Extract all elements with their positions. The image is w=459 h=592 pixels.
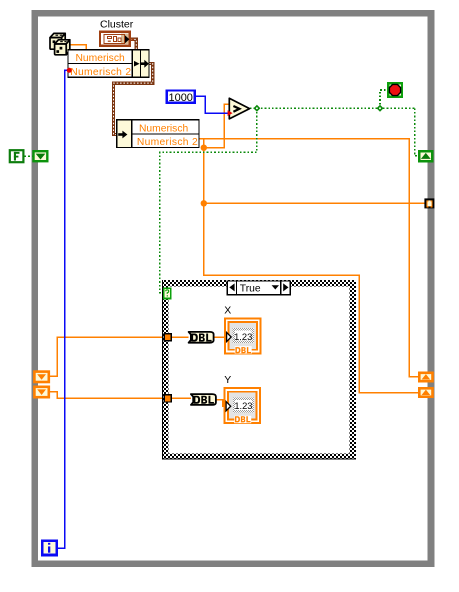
svg-text:Y: Y [224,374,231,386]
wire to boolean shift register [415,108,418,156]
wire junction dot 1 [201,145,207,151]
wire to case selector [160,108,257,292]
wire left shift register 2 to case tunnel Y [50,392,162,399]
svg-text:Numerisch: Numerisch [139,123,188,134]
unbundle by name node [117,120,199,148]
wire branch Numerisch2 to comparison [199,104,229,148]
random number dice 2 [55,40,70,55]
wire random number to bundle [69,45,87,50]
svg-text:Numerisch: Numerisch [76,53,125,64]
numeric constant 1000 [167,91,195,105]
wire DBL to X indicator [214,336,227,338]
wire tunnel Y to DBL conversion [172,397,192,399]
auto-indexing tunnel on right border [425,199,433,207]
numeric indicator X [225,319,260,354]
wire i to bundle (blue) [58,70,68,548]
svg-text:Numerisch 2: Numerisch 2 [70,67,131,78]
svg-text:Cluster: Cluster [100,19,134,31]
wire junction diamond 1 [253,105,260,112]
stop button terminal [388,83,402,96]
wire DBL to Y indicator [216,400,227,407]
svg-text:1.23: 1.23 [234,332,252,342]
svg-text:Numerisch 2: Numerisch 2 [137,137,198,148]
svg-text:1.23: 1.23 [234,401,252,411]
coercion dot at bundle Numerisch 2 input [67,68,72,73]
case tunnel Y [164,395,171,402]
wire to indexing tunnel [204,202,425,204]
iteration terminal i [42,541,56,555]
coercion dot at comparison input [228,110,233,116]
case structure border [162,280,355,459]
wire numeric Numerisch2 to right shift register [199,139,419,377]
wire comparison output (green dotted) [250,107,415,109]
wire junction diamond 2 [377,105,384,112]
cluster constant [100,32,130,46]
right shift register orange 1 [419,373,432,381]
left shift register orange 2 [34,387,48,397]
svg-text:True: True [240,283,261,294]
left shift register orange 1 [34,372,48,382]
numeric indicator Y [225,388,260,423]
case selector label [227,281,290,295]
wire bundle to unbundle (brown cluster wire) [114,64,153,135]
wire junction dot 2 [201,200,207,206]
wire cluster constant to bundle (brown) [131,39,137,49]
svg-text:X: X [224,304,231,316]
case tunnel X [164,334,171,341]
random number dice 1 [50,33,65,49]
wire tunnel X to DBL conversion [172,336,189,338]
comparison greater-than node [229,98,249,119]
wire left shift register 1 to case tunnel X [50,337,162,376]
DBL conversion Y [191,394,216,405]
bundle by name node [68,50,149,78]
wire down right to lower right shift register [204,148,419,393]
cluster wire stub [131,38,134,41]
svg-text:1000: 1000 [168,92,192,104]
right shift register orange 2 [419,388,432,396]
wire F to left boolean shift register [25,155,34,157]
wire 1000 to comparison (blue) [196,96,229,113]
right boolean shift register [419,151,432,161]
wire to stop terminal [380,90,387,108]
boolean constant F [10,150,24,162]
DBL conversion X [189,332,214,343]
left boolean shift register [34,151,48,161]
case selector terminal ? [164,288,171,298]
